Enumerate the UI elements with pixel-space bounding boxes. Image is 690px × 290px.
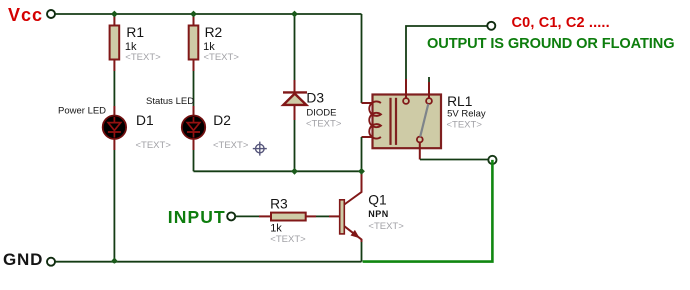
svg-text:1k: 1k: [203, 41, 215, 53]
svg-text:<TEXT>: <TEXT>: [125, 52, 161, 63]
wire R3 to Q1 base: [306, 215, 340, 217]
junction collector node: [358, 168, 365, 175]
wire D2 to collector node: [194, 170, 362, 172]
label D3: [306, 91, 324, 106]
terminal INPUT: [227, 212, 235, 220]
wire relay to C0 terminal: [406, 26, 487, 79]
svg-text:Power LED: Power LED: [58, 106, 106, 117]
wire D1 to GND rail: [113, 139, 115, 261]
svg-text:<TEXT>: <TEXT>: [136, 140, 172, 151]
label D1: [136, 113, 154, 128]
junction Vcc rail / R2: [190, 11, 197, 18]
wire relay common to output terminal: [420, 159, 488, 161]
value NPN: [368, 209, 389, 219]
label RL1: [447, 94, 472, 109]
wire D2 down: [193, 139, 195, 171]
resistor R1: [110, 14, 120, 71]
label R3: [270, 197, 288, 212]
svg-text:R3: R3: [270, 197, 288, 212]
wire output loop to GND: [363, 160, 493, 262]
resistor R3: [271, 213, 306, 221]
svg-text:5V Relay: 5V Relay: [447, 109, 486, 120]
svg-text:RL1: RL1: [447, 94, 472, 109]
relay RL1 body: [369, 95, 441, 149]
placeholder TEXT (D3): [306, 119, 342, 130]
svg-text:D1: D1: [136, 113, 154, 128]
wire GND rail: [55, 261, 361, 263]
junction Vcc rail / D3: [291, 11, 298, 18]
value 1k (R1): [125, 41, 137, 53]
wire INPUT to R3: [235, 215, 271, 217]
label Power LED: [58, 106, 106, 117]
junction D3 / mid wire: [291, 168, 298, 175]
label D2: [213, 113, 231, 128]
svg-text:OUTPUT IS GROUND OR FLOATING: OUTPUT IS GROUND OR FLOATING: [427, 36, 674, 52]
svg-text:DIODE: DIODE: [306, 107, 336, 118]
net label Vcc: [8, 5, 43, 25]
pin relay NO top: [405, 79, 407, 98]
placeholder TEXT (R3): [270, 234, 306, 245]
svg-text:NPN: NPN: [368, 209, 389, 219]
pin relay common bottom: [419, 142, 421, 159]
placeholder TEXT (D2): [213, 140, 249, 151]
svg-text:D3: D3: [306, 91, 324, 106]
svg-text:D2: D2: [213, 113, 231, 128]
diode D3: [283, 14, 307, 171]
label R2: [205, 25, 223, 40]
placeholder TEXT (Q1): [368, 221, 404, 232]
origin marker: [253, 142, 267, 156]
placeholder TEXT (R1): [125, 52, 161, 63]
junction D1 / GND rail: [111, 257, 118, 263]
LED D2: [182, 116, 205, 139]
wire R2 to D2: [193, 71, 195, 115]
terminal GND: [47, 258, 55, 266]
wire Vcc rail: [55, 13, 361, 15]
label Q1: [368, 193, 386, 208]
pin relay NC stub: [428, 77, 430, 98]
svg-text:<TEXT>: <TEXT>: [306, 119, 342, 130]
svg-text:Vcc: Vcc: [8, 5, 43, 25]
pin relay coil bottom: [362, 136, 381, 138]
value 1k (R3): [270, 222, 282, 234]
junction Vcc rail / R1: [111, 11, 118, 18]
transistor Q1: [340, 173, 362, 242]
label R1: [126, 25, 144, 40]
svg-text:R1: R1: [126, 25, 144, 40]
svg-text:1k: 1k: [270, 222, 282, 234]
value 5V Relay: [447, 109, 486, 120]
svg-text:<TEXT>: <TEXT>: [213, 140, 249, 151]
resistor R2: [189, 14, 199, 71]
label OUTPUT IS GROUND OR FLOATING: [427, 36, 674, 52]
pin relay coil top: [362, 102, 381, 104]
svg-text:C0, C1, C2 .....: C0, C1, C2 .....: [512, 15, 610, 31]
wire Vcc rail to relay coil: [361, 14, 363, 103]
svg-text:Status LED: Status LED: [146, 96, 194, 107]
LED D1: [103, 116, 126, 139]
placeholder TEXT (R2): [204, 52, 240, 63]
value 1k (R2): [203, 41, 215, 53]
placeholder TEXT (RL1): [447, 120, 483, 131]
wire R1 to D1: [113, 71, 115, 115]
svg-text:R2: R2: [205, 25, 223, 40]
svg-text:INPUT: INPUT: [168, 207, 226, 227]
terminal relay output: [488, 156, 496, 164]
placeholder TEXT (D1): [136, 140, 172, 151]
terminal Vcc: [47, 10, 55, 18]
svg-text:<TEXT>: <TEXT>: [270, 234, 306, 245]
label INPUT: [168, 207, 226, 227]
svg-text:<TEXT>: <TEXT>: [204, 52, 240, 63]
wire relay coil to collector node: [361, 137, 363, 171]
label Status LED: [146, 96, 194, 107]
label C0, C1, C2: [512, 15, 610, 31]
wire Q1 emitter to GND rail: [361, 242, 363, 262]
label GND: [3, 250, 43, 269]
svg-text:Q1: Q1: [368, 193, 386, 208]
terminal C0 output: [487, 22, 495, 30]
svg-text:<TEXT>: <TEXT>: [368, 221, 404, 232]
value DIODE: [306, 107, 336, 118]
svg-text:GND: GND: [3, 250, 43, 269]
svg-text:1k: 1k: [125, 41, 137, 53]
svg-text:<TEXT>: <TEXT>: [447, 120, 483, 131]
